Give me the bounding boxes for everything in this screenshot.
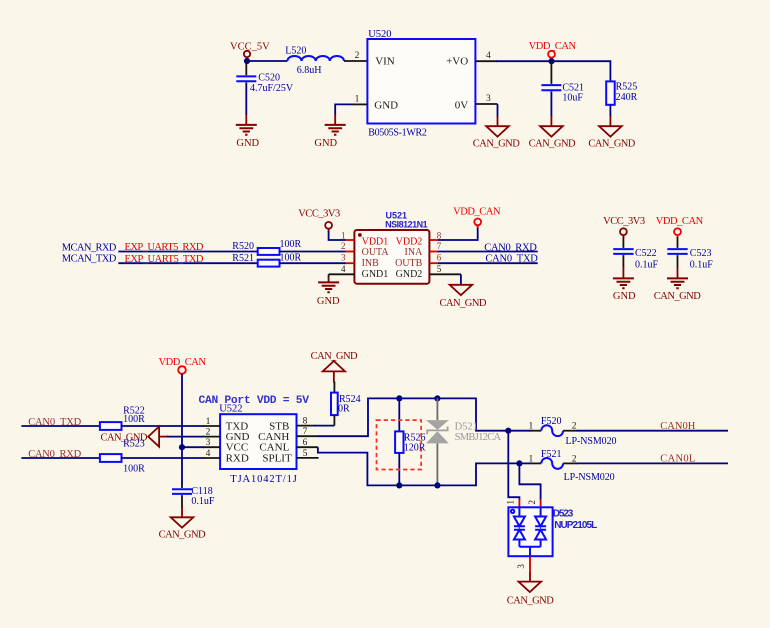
- svg-text:F521: F521: [541, 449, 562, 460]
- wire MCAN_TXD to R521: [118, 262, 257, 264]
- svg-text:D521: D521: [455, 421, 478, 432]
- svg-text:F520: F520: [541, 416, 562, 427]
- wire CANL down to D523 pin 2: [519, 463, 540, 500]
- svg-text:NSI8121N1: NSI8121N1: [385, 219, 428, 229]
- resistor R521 100R: [232, 252, 301, 266]
- svg-text:3: 3: [206, 438, 211, 448]
- svg-text:2: 2: [527, 500, 537, 505]
- resistor R524 0R: [331, 382, 361, 426]
- svg-text:D523: D523: [553, 509, 574, 520]
- svg-text:1: 1: [506, 500, 516, 505]
- wire CAN_GND to U522 pin 2: [167, 436, 204, 438]
- fuse F520: [529, 416, 617, 447]
- junction VCC_5V node: [244, 58, 250, 64]
- svg-text:R520: R520: [232, 241, 254, 252]
- U522 pin 4 (RXD): [203, 449, 220, 459]
- wire CANH junction to F520: [508, 430, 531, 432]
- svg-text:R523: R523: [123, 438, 145, 449]
- wire U520 pin 3 down: [497, 104, 499, 117]
- svg-text:GND: GND: [613, 291, 636, 302]
- fuse F521: [529, 449, 615, 483]
- U520 pin 1 (GND): [352, 94, 368, 104]
- svg-text:5: 5: [437, 264, 442, 274]
- ground GND at U520 pin 1: [314, 114, 345, 149]
- svg-text:7: 7: [303, 427, 308, 437]
- power port CAN_GND (R524, pointing up): [311, 351, 358, 383]
- svg-text:VDD2: VDD2: [396, 236, 423, 247]
- U520 pin 4 (+VO): [475, 51, 497, 61]
- wire CANH down to D523 pin 1: [508, 431, 519, 500]
- svg-text:1: 1: [529, 454, 534, 464]
- svg-text:2: 2: [572, 422, 577, 432]
- svg-text:NUP2105L: NUP2105L: [554, 520, 597, 531]
- wire R523 to U522 pin 4: [122, 457, 205, 459]
- U522 pin 8 (STB): [297, 417, 316, 427]
- svg-text:VCC_3V3: VCC_3V3: [603, 216, 645, 227]
- U522 pin 1 (TXD): [203, 417, 220, 427]
- svg-text:0.1uF: 0.1uF: [635, 260, 659, 271]
- svg-text:VCC_5V: VCC_5V: [230, 42, 270, 53]
- capacitor C521 10uF: [541, 61, 584, 117]
- svg-text:100R: 100R: [123, 464, 145, 475]
- svg-text:OUTA: OUTA: [362, 247, 390, 258]
- ground CAN_GND at C118: [159, 507, 206, 541]
- svg-text:2: 2: [572, 454, 577, 464]
- svg-text:U520: U520: [368, 29, 391, 40]
- svg-text:0R: 0R: [338, 404, 350, 415]
- svg-text:B0505S-1WR2: B0505S-1WR2: [368, 127, 427, 138]
- svg-text:CAN_GND: CAN_GND: [440, 298, 487, 309]
- wire VCC node to U522 pin 3: [182, 446, 204, 448]
- svg-text:INB: INB: [362, 258, 380, 269]
- svg-text:240R: 240R: [616, 92, 638, 103]
- svg-text:CAN_GND: CAN_GND: [529, 139, 576, 150]
- svg-text:0V: 0V: [455, 99, 469, 111]
- junction D521 bottom: [434, 482, 440, 488]
- svg-text:3: 3: [486, 94, 491, 104]
- svg-text:GND: GND: [236, 138, 259, 149]
- U522 pin 7 (CANH): [297, 427, 319, 437]
- ground GND at C522: [613, 278, 636, 302]
- svg-text:6: 6: [303, 438, 308, 448]
- junction U522 pin 3 (VCC) node: [179, 444, 185, 450]
- wire L520 to U520 pin 2: [344, 60, 367, 62]
- U521 pin 7 (INA): [429, 241, 441, 251]
- svg-text:6: 6: [437, 253, 442, 263]
- power port VCC_5V: [230, 42, 270, 62]
- svg-text:4: 4: [206, 449, 211, 459]
- svg-text:RXD: RXD: [226, 452, 249, 464]
- ground CAN_GND at D523: [507, 573, 554, 607]
- wire F521 to CAN0L: [577, 462, 728, 464]
- svg-text:MCAN_TXD: MCAN_TXD: [62, 254, 117, 265]
- resistor R525 240R: [606, 81, 637, 117]
- wire CAN0_RXD to R523: [21, 457, 100, 459]
- wire VDD_CAN down to C118: [181, 374, 183, 484]
- svg-text:MCAN_RXD: MCAN_RXD: [62, 242, 117, 253]
- junction R526 bottom: [396, 482, 402, 488]
- svg-text:GND: GND: [374, 99, 398, 111]
- svg-text:4: 4: [486, 51, 491, 61]
- wire CANL net through termination: [318, 447, 520, 485]
- svg-text:+VO: +VO: [446, 56, 468, 68]
- svg-text:VDD1: VDD1: [362, 236, 389, 247]
- svg-text:2: 2: [341, 241, 346, 251]
- svg-text:VIN: VIN: [375, 56, 395, 68]
- svg-text:1: 1: [341, 230, 346, 240]
- IC U522 TJA1042T/1J body: [219, 404, 297, 485]
- svg-text:TJA1042T/1J: TJA1042T/1J: [230, 474, 296, 485]
- wire U521 pin 8 to VDD_CAN: [438, 225, 478, 240]
- svg-text:GND: GND: [317, 296, 340, 307]
- svg-text:C523: C523: [690, 248, 712, 259]
- ground CAN_GND at C523: [654, 278, 701, 302]
- junction CANH at F520: [505, 428, 511, 434]
- U521 pin 5 (GND2): [429, 264, 461, 274]
- wire CAN0_TXD from U521 pin 6: [438, 262, 538, 264]
- ground CAN_GND at U521 pin 5: [440, 285, 487, 309]
- inductor L520 6.8uH: [285, 46, 344, 77]
- svg-text:CAN Port VDD = 5V: CAN Port VDD = 5V: [199, 395, 310, 407]
- capacitor C523 0.1uF: [667, 237, 713, 279]
- svg-text:VDD_CAN: VDD_CAN: [656, 216, 704, 227]
- svg-text:8: 8: [437, 230, 442, 240]
- svg-text:GND2: GND2: [396, 269, 423, 280]
- svg-text:CAN_GND: CAN_GND: [654, 291, 701, 302]
- power port VDD_CAN (top): [529, 41, 577, 61]
- svg-text:U522: U522: [219, 404, 242, 415]
- TVS diode D521 SMBJ12CA: [426, 398, 502, 485]
- svg-text:4: 4: [341, 264, 346, 274]
- svg-text:0.1uF: 0.1uF: [690, 260, 714, 271]
- power port VDD_CAN (C523): [656, 216, 704, 238]
- wire U521 pin 5 to CAN_GND: [460, 274, 462, 285]
- svg-text:CAN_GND: CAN_GND: [588, 139, 635, 150]
- svg-text:120R: 120R: [404, 443, 426, 454]
- TVS array D523 NUP2105L: [506, 499, 598, 574]
- svg-text:6.8uH: 6.8uH: [297, 65, 322, 76]
- wire VCC_5V node to L520: [247, 60, 287, 62]
- svg-text:CAN_GND: CAN_GND: [159, 530, 206, 541]
- svg-text:100R: 100R: [123, 414, 145, 425]
- svg-text:GND1: GND1: [362, 269, 389, 280]
- U522 pin 3 (VCC): [203, 438, 220, 448]
- capacitor C522 0.1uF: [613, 237, 658, 279]
- wire VCC_3V3 to U521 pin 1: [329, 231, 346, 240]
- ground CAN_GND at C521: [529, 116, 576, 150]
- svg-text:10uF: 10uF: [562, 92, 583, 103]
- svg-text:CAN0_RXD: CAN0_RXD: [484, 242, 537, 253]
- U520 pin 2 (VIN): [355, 51, 360, 61]
- svg-text:3: 3: [516, 564, 526, 569]
- svg-text:SPLIT: SPLIT: [262, 452, 292, 464]
- ground CAN_GND at R525: [588, 116, 635, 150]
- wire R526 branch top: [398, 398, 400, 431]
- power port VDD_CAN (U521): [453, 206, 501, 228]
- wire CANH net through termination: [318, 398, 509, 436]
- capacitor C520 4.7uF/25V: [236, 61, 294, 115]
- power port VDD_CAN (U522): [159, 357, 207, 374]
- svg-text:EXP_UART5_RXD: EXP_UART5_RXD: [125, 242, 204, 253]
- svg-text:CAN_GND: CAN_GND: [507, 595, 554, 606]
- IC U521 NSI8121N1 body: [354, 211, 429, 284]
- resistor R523 100R: [100, 438, 145, 474]
- power port VCC_3V3 (C522): [603, 216, 645, 238]
- svg-text:R525: R525: [616, 82, 638, 93]
- svg-text:100R: 100R: [280, 252, 302, 263]
- U522 pin 5 (SPLIT): [297, 449, 319, 459]
- resistor R522 100R: [100, 406, 145, 430]
- wire U521 pin 4 to ground: [328, 274, 330, 278]
- svg-text:SMBJ12CA: SMBJ12CA: [455, 432, 502, 443]
- wire +VO to VDD_CAN node: [496, 60, 552, 62]
- resistor R526 120R: [395, 431, 426, 453]
- svg-text:LP-NSM020: LP-NSM020: [564, 472, 615, 483]
- ground CAN_GND at U520 pin 3: [473, 116, 520, 150]
- U521 pin 8 (VDD2): [429, 230, 441, 240]
- svg-text:GND: GND: [314, 138, 337, 149]
- U521 pin 2 (OUTA): [341, 241, 354, 251]
- svg-text:LP-NSM020: LP-NSM020: [566, 436, 617, 447]
- capacitor C118 0.1uF: [172, 483, 215, 508]
- junction R526 top: [396, 395, 402, 401]
- svg-text:0.1uF: 0.1uF: [191, 496, 215, 507]
- svg-text:L520: L520: [285, 46, 306, 57]
- svg-text:CAN_GND: CAN_GND: [311, 351, 358, 362]
- wire MCAN_RXD to R520: [118, 251, 257, 253]
- svg-text:100R: 100R: [280, 239, 302, 250]
- wire VDD_CAN node to R525: [552, 61, 611, 81]
- svg-text:R521: R521: [232, 253, 254, 264]
- ground GND at C520: [236, 114, 260, 149]
- wire R526 branch bottom: [398, 453, 400, 486]
- wire CANL junction to F521: [519, 462, 531, 464]
- svg-text:OUTB: OUTB: [395, 258, 423, 269]
- svg-text:C522: C522: [635, 248, 657, 259]
- U522 pin 2 (GND): [203, 428, 220, 438]
- wire R522 to U522 pin 1: [122, 425, 205, 427]
- wire U522 pin 8 to R524: [314, 425, 334, 427]
- junction CANL at F521: [516, 460, 522, 466]
- svg-text:3: 3: [341, 253, 346, 263]
- svg-text:1: 1: [355, 94, 360, 104]
- svg-text:7: 7: [437, 241, 442, 251]
- U522 pin 6 (CANL): [297, 438, 318, 448]
- power port CAN_GND (U522 pin 2, pointing left): [101, 427, 169, 447]
- svg-text:VDD_CAN: VDD_CAN: [453, 206, 501, 217]
- svg-text:CAN0L: CAN0L: [660, 454, 695, 465]
- U521 pin 6 (OUTB): [429, 253, 441, 264]
- wire F520 to CAN0H: [577, 430, 728, 432]
- termination option box (red dashed): [377, 420, 422, 469]
- svg-text:8: 8: [303, 417, 308, 427]
- svg-text:VCC_3V3: VCC_3V3: [298, 209, 340, 220]
- U521 pin 4 (GND1): [329, 264, 355, 274]
- U520 pin 3 (0V): [475, 94, 497, 104]
- svg-text:1: 1: [206, 417, 211, 427]
- svg-text:INA: INA: [405, 247, 424, 258]
- ground GND at U521 pin 4: [317, 277, 340, 307]
- svg-text:CAN_GND: CAN_GND: [473, 139, 520, 150]
- svg-text:EXP_UART5_TXD: EXP_UART5_TXD: [125, 254, 204, 265]
- svg-text:5: 5: [303, 449, 308, 459]
- wire CAN0_RXD from U521 pin 7: [438, 251, 538, 253]
- wire R521 to U521 pin 3: [280, 262, 347, 264]
- svg-text:CAN0_TXD: CAN0_TXD: [485, 254, 538, 265]
- svg-text:2: 2: [355, 51, 360, 61]
- svg-text:2: 2: [206, 428, 211, 438]
- U521 pin 3 (INB): [341, 253, 354, 264]
- svg-text:CAN0H: CAN0H: [660, 421, 695, 432]
- svg-text:4.7uF/25V: 4.7uF/25V: [250, 83, 294, 94]
- wire U520 pin 1 to ground: [335, 104, 352, 115]
- wire CAN0_TXD to R522: [21, 425, 100, 427]
- junction D521 top: [434, 395, 440, 401]
- U521 pin 1 (VDD1): [341, 230, 354, 240]
- resistor R520 100R: [232, 239, 301, 255]
- wire R520 to U521 pin 2: [280, 251, 347, 253]
- power port VCC_3V3 (U521): [298, 209, 340, 232]
- IC U520 B0505S-1WR2 body: [367, 29, 475, 138]
- junction VDD_CAN node: [548, 58, 554, 64]
- svg-text:1: 1: [529, 422, 534, 432]
